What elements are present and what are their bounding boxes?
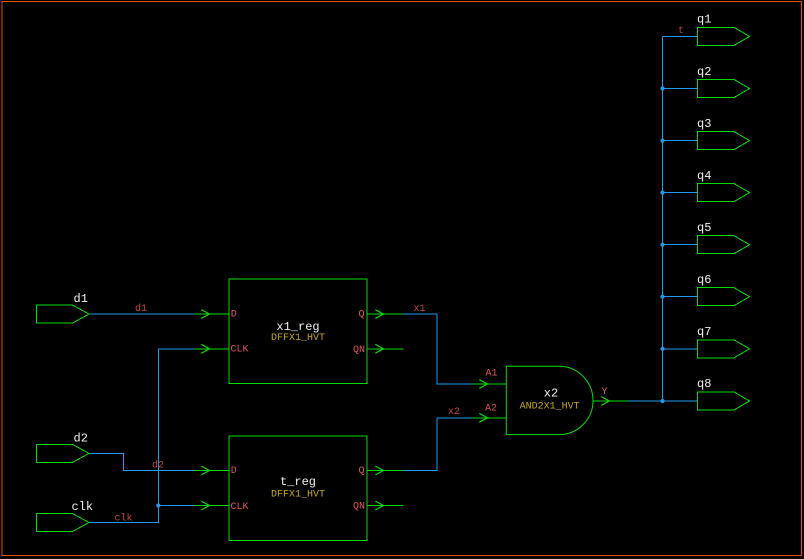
svg-text:q6: q6 [697, 273, 711, 287]
svg-text:d2: d2 [152, 460, 164, 472]
svg-text:DFFX1_HVT: DFFX1_HVT [271, 333, 325, 344]
svg-text:q4: q4 [697, 169, 711, 183]
svg-text:A2: A2 [485, 404, 497, 415]
svg-text:clk: clk [115, 513, 133, 525]
svg-text:d1: d1 [135, 303, 147, 315]
svg-text:CLK: CLK [231, 345, 249, 356]
svg-text:x1_reg: x1_reg [276, 320, 319, 334]
svg-text:q3: q3 [697, 117, 711, 131]
svg-text:Q: Q [358, 466, 364, 477]
svg-text:d1: d1 [74, 292, 88, 306]
svg-text:Q: Q [358, 310, 364, 321]
svg-text:D: D [231, 466, 237, 477]
svg-text:D: D [231, 310, 237, 321]
svg-text:q1: q1 [697, 13, 711, 27]
svg-text:q5: q5 [697, 221, 711, 235]
svg-text:A1: A1 [486, 369, 498, 380]
svg-text:t_reg: t_reg [280, 475, 316, 489]
svg-text:x1: x1 [414, 304, 426, 315]
svg-text:DFFX1_HVT: DFFX1_HVT [271, 490, 325, 501]
svg-text:x2: x2 [448, 407, 460, 418]
svg-text:d2: d2 [74, 431, 88, 445]
svg-text:AND2X1_HVT: AND2X1_HVT [520, 402, 580, 413]
svg-text:q8: q8 [697, 377, 711, 391]
svg-text:q7: q7 [697, 325, 711, 339]
svg-text:t: t [678, 26, 684, 37]
svg-text:Y: Y [602, 387, 608, 398]
svg-text:QN: QN [353, 345, 365, 356]
svg-text:CLK: CLK [231, 502, 249, 513]
svg-text:QN: QN [353, 502, 365, 513]
svg-text:clk: clk [72, 500, 94, 514]
svg-text:x2: x2 [544, 387, 558, 401]
svg-text:q2: q2 [697, 65, 711, 79]
